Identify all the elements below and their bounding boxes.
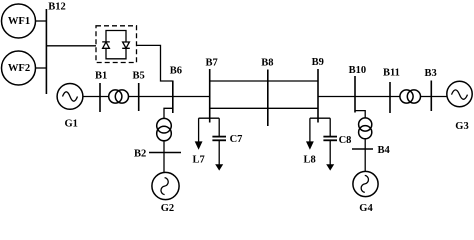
svg-text:L7: L7 (193, 155, 205, 166)
svg-text:B2: B2 (134, 148, 146, 159)
generator G2 (152, 172, 179, 199)
svg-text:C7: C7 (230, 134, 243, 145)
wire B6 to transformer T2 (164, 108, 173, 118)
generator G4 (353, 171, 378, 196)
bus B4 (352, 148, 373, 150)
svg-text:B12: B12 (48, 2, 66, 13)
capacitor C7 (218, 118, 220, 136)
wire T4 to G4 (364, 139, 366, 172)
transformer T2 (157, 118, 172, 133)
capacitor C8 (329, 118, 331, 136)
wire T2 to G2 (163, 141, 165, 173)
bus B12 (45, 9, 47, 94)
svg-text:G2: G2 (161, 203, 174, 214)
svg-text:L8: L8 (304, 155, 316, 166)
svg-text:B5: B5 (133, 70, 145, 81)
generator G1 (57, 84, 83, 110)
converter dashed box (96, 26, 137, 63)
svg-text:WF1: WF1 (8, 16, 30, 27)
bus B8 (267, 70, 269, 127)
wire load connector B7 (199, 117, 220, 119)
svg-text:B7: B7 (206, 58, 218, 69)
bus B3 (430, 81, 432, 112)
svg-text:WF2: WF2 (8, 63, 30, 74)
diode D1 (102, 42, 110, 48)
bus B6 (172, 81, 174, 114)
svg-text:B10: B10 (349, 65, 367, 76)
svg-text:B9: B9 (312, 57, 324, 68)
bus B7 (209, 69, 211, 123)
bus B11 (389, 82, 391, 113)
load L7 (198, 118, 200, 142)
svg-text:B4: B4 (378, 145, 391, 156)
wire converter to B6 (137, 45, 173, 81)
wire B9 to transformer T3 (318, 96, 400, 98)
wire T3 to G3 (421, 96, 448, 98)
transformer T1 (109, 90, 122, 103)
transformer T4 (359, 118, 372, 131)
svg-text:B6: B6 (170, 66, 182, 77)
bus B9 (317, 69, 319, 123)
svg-text:G4: G4 (359, 203, 373, 214)
svg-text:B3: B3 (425, 68, 437, 79)
transformer T3 (400, 90, 413, 103)
bus B10 (354, 76, 356, 113)
svg-text:G3: G3 (455, 121, 468, 132)
wire WF2 to B12 (36, 67, 47, 69)
wire B10 to transformer T4 (355, 111, 365, 119)
wire T1 to B7 (129, 96, 210, 98)
wind farm WF1 (2, 4, 36, 38)
bus B1 (99, 83, 101, 112)
load L8 (309, 118, 311, 142)
wind farm WF2 (2, 51, 36, 85)
bus B5 (138, 83, 140, 111)
wire WF1 to B12 (36, 20, 47, 22)
wire G1 to transformer (83, 96, 109, 98)
diode D2 (122, 42, 130, 48)
transmission line top B7-B9 (210, 80, 318, 82)
converter inner loop (106, 31, 126, 59)
svg-text:B11: B11 (383, 68, 400, 79)
generator G3 (447, 81, 472, 106)
transmission line bottom B7-B9 (210, 107, 318, 109)
wire B12 to converter box (46, 45, 96, 47)
svg-text:B1: B1 (95, 70, 107, 81)
bus B2 (149, 152, 181, 154)
svg-text:C8: C8 (339, 135, 352, 146)
svg-text:B8: B8 (261, 58, 273, 69)
svg-text:G1: G1 (64, 118, 77, 129)
wire load connector B9 (310, 117, 330, 119)
